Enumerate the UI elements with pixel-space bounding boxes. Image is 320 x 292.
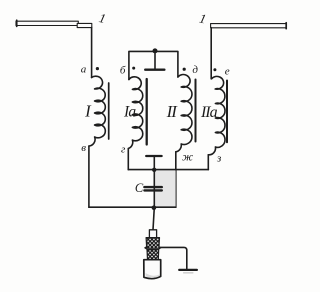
node a dot: [96, 67, 99, 70]
svg-text:в: в: [81, 142, 86, 154]
svg-text:С: С: [135, 181, 144, 195]
wire: coil IIa bottom down: [207, 155, 209, 170]
node d dot: [183, 68, 186, 71]
wire: detector to ground: [160, 247, 187, 268]
wire: middle bus g-zh-z: [128, 169, 208, 171]
svg-text:II: II: [166, 102, 179, 121]
wire: coil II bottom down to bottom bus: [175, 152, 177, 207]
core of coil I: [108, 83, 110, 139]
antenna lead left (tube): [16, 20, 92, 27]
node: middle junction dot: [152, 168, 156, 172]
svg-text:1: 1: [198, 10, 208, 26]
wire: down to detector: [153, 207, 154, 229]
svg-text:з: з: [216, 153, 221, 165]
wire: left lead down to coil I: [91, 27, 93, 77]
wire: right lead down to coil IIa: [210, 28, 212, 79]
antenna lead right (tube): [211, 23, 287, 29]
svg-text:ж: ж: [182, 150, 193, 164]
wire: top bus connecting b and d: [129, 51, 178, 79]
core of coil Ia: [146, 79, 148, 145]
svg-text:г: г: [121, 143, 126, 155]
coil I: [89, 76, 105, 146]
node: top junction dot: [153, 48, 158, 53]
svg-text:IIа: IIа: [200, 104, 218, 121]
detector crystal cup: [144, 260, 161, 279]
svg-text:1: 1: [98, 10, 108, 26]
shaded box (scan shadow): [155, 170, 176, 207]
ground: [179, 270, 197, 273]
wire: coil I bottom down: [88, 146, 90, 207]
svg-text:д: д: [192, 64, 198, 76]
coil II: [176, 75, 192, 152]
detector collar: [149, 230, 156, 238]
svg-text:а: а: [81, 64, 87, 76]
svg-text:I: I: [84, 101, 92, 120]
svg-text:б: б: [120, 64, 126, 76]
wire: capacitor branch: [153, 170, 155, 208]
coil Ia: [128, 77, 142, 149]
svg-text:Iа: Iа: [123, 103, 136, 120]
wire: bottom bus: [89, 206, 176, 208]
capacitor plate (upper T hanging from top bus): [145, 51, 164, 69]
detector knurled body (crosshatched): [144, 238, 162, 260]
node e dot: [213, 68, 216, 71]
node b dot: [132, 67, 135, 70]
svg-text:е: е: [225, 65, 230, 77]
core of coil IIa: [226, 81, 228, 143]
wire: coil Ia bottom down: [127, 149, 129, 170]
node: bottom junction dot: [152, 205, 157, 210]
coil IIa: [208, 76, 225, 154]
core of coil II: [195, 80, 197, 142]
capacitor C plates: [144, 187, 161, 190]
capacitor plate (lower T above middle bus): [146, 156, 161, 170]
